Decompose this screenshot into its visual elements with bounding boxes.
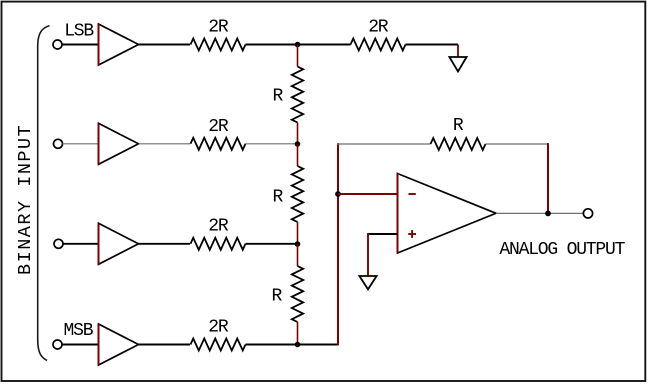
wire buffer 4 to resistor 2R row4 xyxy=(139,344,191,346)
wire J2 to buffer 2 xyxy=(62,143,98,145)
svg-text:R: R xyxy=(453,116,464,136)
wire buffer 3 to resistor 2R row3 xyxy=(139,243,191,245)
wire buffer 2 to resistor 2R row2 xyxy=(139,143,191,145)
wire op-amp output to terminal xyxy=(496,212,583,214)
wire resistor 2R row3 to node C xyxy=(246,243,298,245)
svg-text:LSB: LSB xyxy=(64,21,94,41)
svg-text:R: R xyxy=(273,188,284,208)
label ANALOG OUTPUT xyxy=(499,240,625,260)
label LSB xyxy=(64,21,94,41)
wire feedback riser (maroon vertical) xyxy=(337,143,339,345)
wire op-amp noninverting input xyxy=(368,233,398,235)
buffer 2 xyxy=(99,123,139,164)
label 2R row3 xyxy=(208,217,229,237)
wire node E to op-amp inverting input (maroon) xyxy=(338,193,398,195)
label R2 xyxy=(273,188,284,208)
resistor 2R row1 xyxy=(191,39,246,51)
wire resistor R1 to node B (maroon) xyxy=(297,123,299,145)
op-amp U1 xyxy=(398,174,497,254)
label MSB xyxy=(64,321,94,341)
resistor R2 (ladder vertical) xyxy=(292,166,303,222)
svg-text:R: R xyxy=(273,87,284,107)
node F (output junction) xyxy=(545,211,551,217)
terminal J5 (analog output) xyxy=(583,209,592,218)
wire resistor 2R row4 to node D and to feedback riser xyxy=(246,344,339,346)
wire J1 to buffer 1 xyxy=(62,44,99,46)
label R feedback xyxy=(453,116,464,136)
resistor 2R row3 xyxy=(191,238,246,250)
label 2R row1 xyxy=(208,17,229,37)
wire feedback top right segment xyxy=(486,143,550,145)
label 2R row2 xyxy=(208,117,229,137)
wire node A to resistor R1 (maroon) xyxy=(297,45,299,67)
wire noninverting ground stub (maroon) xyxy=(367,233,369,276)
label R3 xyxy=(272,287,283,307)
ground symbol G1 xyxy=(449,57,466,72)
wire node B to resistor R2 (maroon) xyxy=(297,144,299,166)
ground symbol G2 xyxy=(359,276,376,289)
binary input bracket xyxy=(38,26,50,361)
buffer 4 (MSB) xyxy=(99,324,139,365)
wire node C to resistor R3 (maroon) xyxy=(297,244,299,266)
node B (row2 ladder junction) xyxy=(295,141,301,147)
terminal J1 (LSB input) xyxy=(53,40,62,49)
buffer 1 (LSB) xyxy=(99,24,139,65)
label R1 xyxy=(273,87,284,107)
node D (row4 ladder junction) xyxy=(295,342,301,348)
buffer 3 xyxy=(99,223,139,264)
resistor R feedback xyxy=(431,138,486,150)
node C (row3 ladder junction) xyxy=(295,241,301,247)
svg-text:BINARY INPUT: BINARY INPUT xyxy=(15,124,36,275)
svg-text:2R: 2R xyxy=(368,17,389,37)
wire 2R termination to ground stub xyxy=(406,44,459,46)
node E (inverting input junction) xyxy=(335,191,341,197)
resistor 2R row2 xyxy=(191,138,246,150)
resistor 2R termination xyxy=(351,39,406,51)
resistor R1 (ladder vertical) xyxy=(292,67,303,123)
wire J3 to buffer 3 xyxy=(63,243,99,245)
svg-text:R: R xyxy=(272,287,283,307)
label BINARY INPUT xyxy=(15,124,36,275)
label 2R termination xyxy=(368,17,389,37)
terminal J2 (input bit 2) xyxy=(54,139,63,148)
wire feedback top left segment xyxy=(337,143,431,145)
svg-text:2R: 2R xyxy=(208,217,229,237)
svg-text:2R: 2R xyxy=(208,117,229,137)
wire J4 to buffer 4 xyxy=(62,344,99,346)
wire ground stub (maroon) xyxy=(457,45,459,58)
terminal J3 (input bit 3) xyxy=(54,239,63,248)
svg-text:2R: 2R xyxy=(208,17,229,37)
terminal J4 (MSB input) xyxy=(53,340,62,349)
wire resistor 2R row1 to node A xyxy=(246,44,351,46)
node A (row1 ladder junction) xyxy=(295,42,301,48)
wire resistor 2R row2 to node B xyxy=(246,143,298,145)
label 2R row4 xyxy=(208,317,229,337)
wire resistor R3 to node D (maroon) xyxy=(297,322,299,345)
resistor 2R row4 xyxy=(191,339,246,351)
svg-text:MSB: MSB xyxy=(64,321,94,341)
wire resistor R2 to node C (maroon) xyxy=(297,222,299,244)
wire feedback right drop (maroon vertical) xyxy=(547,143,549,213)
svg-text:2R: 2R xyxy=(208,317,229,337)
resistor R3 (ladder vertical) xyxy=(292,266,303,322)
svg-text:ANALOG OUTPUT: ANALOG OUTPUT xyxy=(499,240,625,260)
wire buffer 1 to resistor 2R row1 xyxy=(139,44,191,46)
